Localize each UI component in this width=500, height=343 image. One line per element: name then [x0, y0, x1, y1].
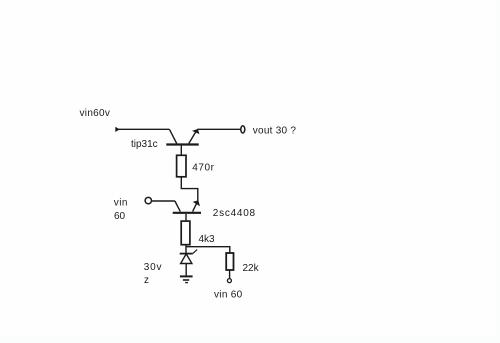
faint page edge band bottom: [0, 336, 500, 343]
resistor R1 470r: [177, 155, 186, 177]
resistor R2 4k3: [181, 221, 190, 245]
svg-text:vin60v: vin60v: [80, 108, 111, 119]
wire Q1 base down to R1: [180, 146, 182, 156]
svg-text:4k3: 4k3: [199, 234, 216, 245]
svg-text:z: z: [144, 275, 149, 286]
wire emitter to output terminal: [197, 128, 240, 130]
transistor Q1 tip31c collector lead: [170, 129, 177, 143]
svg-text:vin 60: vin 60: [214, 290, 243, 301]
zener D1 cathode bar: [180, 253, 193, 255]
transistor Q2 emitter arrow: [193, 200, 200, 206]
svg-text:22k: 22k: [243, 263, 260, 274]
transistor Q1 tip31c base bar: [166, 143, 198, 145]
svg-text:470r: 470r: [192, 163, 214, 174]
ground bar 1: [180, 275, 193, 277]
svg-text:30v: 30v: [144, 262, 163, 273]
terminal vin input circle: [145, 197, 151, 203]
wire zener anode to ground: [185, 264, 187, 277]
ground bar 2: [183, 279, 189, 281]
zener D1 bent tab: [193, 250, 197, 254]
wire Q2 base down to R2: [185, 214, 187, 221]
svg-text:2sc4408: 2sc4408: [213, 208, 256, 219]
svg-text:vin: vin: [114, 198, 128, 209]
wire end tick (left terminal mark): [115, 127, 120, 132]
terminal vin 60 circle: [227, 279, 231, 283]
transistor Q1 tip31c emitter lead: [189, 130, 197, 144]
svg-text:60: 60: [114, 211, 126, 222]
svg-text:tip31c: tip31c: [131, 139, 158, 150]
terminal vout (small oval): [241, 126, 245, 133]
transistor Q2 2sc4408 emitter lead: [193, 202, 198, 212]
wire collector input (top left horizontal): [117, 128, 170, 130]
wire R1 bottom jog to Q2 emitter: [181, 177, 198, 201]
wire node to R3 22k: [186, 247, 230, 253]
resistor R3 22k: [226, 253, 233, 270]
transistor Q1 emitter arrow: [192, 129, 199, 134]
svg-text:vout 30 ?: vout 30 ?: [253, 126, 297, 137]
transistor Q2 2sc4408 collector lead: [175, 201, 180, 212]
ground bar 3: [185, 282, 188, 284]
zener D1 triangle: [181, 254, 192, 264]
wire input to Q2: [152, 200, 175, 202]
wire R3 bottom to terminal: [229, 270, 231, 279]
faint page edge band right: [496, 0, 500, 343]
transistor Q2 2sc4408 base bar: [173, 212, 201, 214]
wire R2 bottom to zener node: [185, 245, 187, 254]
